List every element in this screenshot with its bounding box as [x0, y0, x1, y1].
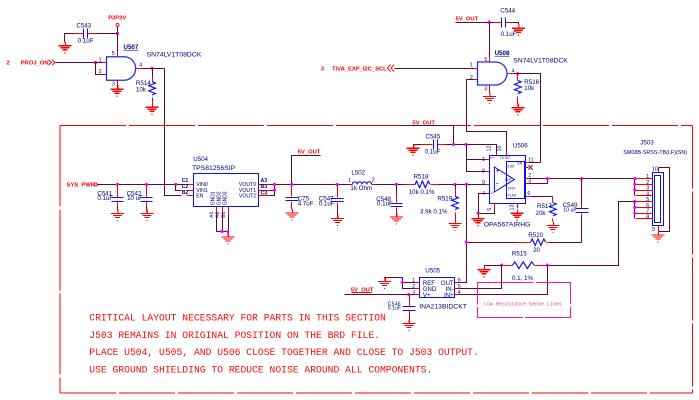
ground (C545)	[407, 144, 420, 155]
svg-text:U506: U506	[513, 143, 528, 150]
svg-text:B3: B3	[261, 184, 268, 190]
svg-text:J503: J503	[640, 140, 654, 147]
svg-text:4: 4	[482, 191, 485, 197]
ground (C548)	[390, 213, 403, 224]
wire R520 right to C549 leg	[550, 242, 582, 244]
junction PROJ_ON split	[94, 61, 97, 64]
junction pin 3 join	[546, 177, 549, 180]
svg-text:GND3: GND3	[222, 191, 228, 205]
svg-text:PLACE U504, U505, AND U506 CLO: PLACE U504, U505, AND U506 CLOSE TOGETHE…	[89, 347, 479, 358]
wire junction down to U507 pin 5	[117, 34, 119, 52]
svg-text:TPS81256SIP: TPS81256SIP	[192, 165, 236, 172]
svg-text:3: 3	[112, 81, 115, 87]
wire C543 right to junction	[96, 33, 118, 35]
junction VIN1 tee	[174, 183, 177, 186]
svg-text:C3: C3	[261, 191, 268, 197]
junction C548	[395, 183, 398, 186]
svg-text:10k: 10k	[136, 86, 147, 93]
junction U507 output	[151, 67, 154, 70]
junction P3P3V/C543	[116, 32, 119, 35]
node 5V_OUT (net label, top right)	[456, 16, 479, 22]
capacitor C547 0.1uF	[319, 185, 344, 216]
capacitor C548 0.1uF	[376, 185, 402, 214]
wire VIN1 loop	[176, 185, 182, 191]
node 5V_OUT (net label near U505)	[351, 288, 374, 294]
svg-text:2: 2	[470, 75, 473, 81]
junction J503 pin 7	[633, 212, 636, 215]
ground (C544)	[512, 24, 525, 35]
resistor R518 10k 0.1%	[407, 173, 439, 196]
svg-text:VOUT2: VOUT2	[239, 194, 256, 200]
svg-text:CRITICAL LAYOUT NECESSARY FOR: CRITICAL LAYOUT NECESSARY FOR PARTS IN T…	[89, 313, 386, 324]
resistor R516 10k	[514, 74, 539, 105]
op-amp U506 OPA567AIRHG	[482, 143, 534, 211]
wire C544 right to ground	[514, 23, 519, 25]
svg-text:6: 6	[527, 191, 530, 197]
junction R520 / feedback	[465, 241, 468, 244]
capacitor C541 0.1uF	[97, 185, 123, 211]
wire 5V_OUT to U505 V+	[345, 294, 415, 296]
node 5V_OUT (net label near U504)	[298, 150, 321, 156]
svg-text:TIVA_EXP_I2C_SCL: TIVA_EXP_I2C_SCL	[332, 67, 387, 73]
junction GND2	[221, 230, 224, 233]
svg-text:OPA567AIRHG: OPA567AIRHG	[484, 222, 531, 229]
ground (U506 pin 13)	[511, 209, 524, 220]
svg-text:10k: 10k	[524, 85, 535, 92]
svg-text:2: 2	[7, 60, 10, 66]
junction C547	[335, 183, 338, 186]
junction GND3	[226, 230, 229, 233]
svg-text:SYS_PWR: SYS_PWR	[67, 182, 96, 188]
svg-text:3: 3	[412, 290, 415, 296]
junction J503 pin 1	[633, 177, 636, 180]
svg-text:ILIM: ILIM	[508, 165, 515, 169]
wire drop to U506 pin 1 and pin 8	[467, 145, 486, 172]
svg-text:C543: C543	[76, 22, 91, 29]
svg-text:1497: 1497	[508, 187, 516, 191]
svg-text:13: 13	[510, 205, 516, 211]
wire junction to pin 1	[96, 62, 103, 64]
junction 5V_OUT / C75	[290, 183, 293, 186]
svg-text:B1: B1	[220, 211, 226, 218]
svg-text:8: 8	[646, 214, 649, 220]
svg-text:0.1uF: 0.1uF	[78, 38, 94, 45]
wire U505 OUT up to R520 junction	[460, 282, 467, 284]
critical layout note text	[89, 313, 479, 376]
wire U506 output pins 2/3	[530, 179, 635, 184]
svg-text:V-: V-	[491, 191, 494, 195]
svg-text:SN74LV1T08DCK: SN74LV1T08DCK	[513, 58, 568, 65]
svg-text:10: 10	[497, 146, 503, 152]
svg-text:2: 2	[412, 284, 415, 290]
wire TIVA_EXP_I2C_SCL to U508 pin 1	[395, 68, 474, 70]
svg-text:5V_OUT: 5V_OUT	[298, 150, 321, 156]
ground (R517)	[547, 222, 560, 233]
svg-text:R515: R515	[512, 250, 527, 257]
svg-text:IN+: IN+	[444, 293, 454, 299]
svg-text:3: 3	[321, 66, 325, 72]
junction C542	[145, 183, 148, 186]
svg-text:20: 20	[533, 247, 540, 254]
svg-text:4: 4	[458, 290, 461, 296]
svg-text:IN-: IN-	[446, 287, 454, 293]
svg-text:B2: B2	[182, 190, 189, 196]
svg-text:EN: EN	[196, 194, 203, 200]
wire R515 right down to U505 IN+	[460, 266, 548, 295]
capacitor C544	[495, 7, 517, 38]
svg-text:P3P3V: P3P3V	[108, 16, 126, 22]
svg-text:C544: C544	[500, 7, 515, 14]
svg-text:20k: 20k	[536, 210, 547, 217]
svg-text:10: 10	[652, 167, 658, 173]
ground (C75)	[286, 209, 299, 220]
capacitor C545 0.1uF	[422, 133, 447, 155]
svg-text:R520: R520	[528, 232, 543, 239]
svg-text:V+: V+	[490, 156, 494, 160]
svg-text:FLAG: FLAG	[508, 194, 517, 198]
wire EN vertical down to U504 EN	[165, 69, 182, 196]
wire C545 left to ground	[414, 145, 422, 146]
capacitor C542 10 uF	[127, 185, 153, 211]
wire U506 pins 4/5 to ground	[479, 194, 495, 214]
junction C545 net / 5V_OUT	[452, 143, 455, 146]
wire U508 output right and down to U506 pin 11	[514, 74, 541, 163]
wire 5V_OUT stub	[292, 156, 321, 185]
annotation box Low Resistance Sense Lines	[478, 283, 571, 318]
wire U504 GND pins to ground	[217, 215, 229, 235]
wire R520 left to feedback vertical	[467, 242, 517, 244]
wire U507 output to EN vertical	[143, 68, 165, 70]
terminal circle SYS_PWR	[94, 183, 97, 186]
svg-text:0.1uF: 0.1uF	[97, 195, 113, 202]
svg-text:U508: U508	[495, 50, 510, 57]
terminal circle P3P3V	[116, 23, 119, 26]
svg-text:1k Ohm: 1k Ohm	[350, 185, 372, 192]
wire 5V_OUT to C544	[456, 22, 495, 24]
svg-text:5: 5	[484, 57, 487, 63]
svg-text:GND: GND	[423, 287, 437, 293]
svg-text:5: 5	[112, 51, 115, 57]
svg-text:5: 5	[458, 284, 461, 290]
wire VOUT1/VOUT2 join	[270, 185, 275, 196]
svg-text:1: 1	[348, 178, 351, 184]
svg-text:U507: U507	[124, 44, 139, 51]
ground (U506 pins 4/5)	[478, 214, 480, 216]
junction C544 / U508 pin 5	[487, 21, 490, 24]
wire feedback vertical rail to U505 OUT	[460, 185, 467, 283]
svg-text:0.1uF: 0.1uF	[388, 305, 401, 311]
AND gate U507 SN74LV1T08DCK	[99, 44, 202, 87]
wire C545 net to U506 pin 12	[447, 145, 497, 152]
wire R515 left down to U505 IN-	[460, 266, 502, 289]
svg-text:5: 5	[487, 208, 493, 211]
pin stubs	[486, 160, 490, 194]
svg-text:10k 0.1%: 10k 0.1%	[409, 189, 435, 196]
junction U508 output	[516, 72, 519, 75]
junction pin1/pin8 drop	[464, 143, 467, 146]
junction R515 right	[546, 264, 549, 267]
off-page ref 2 PROJ_ON	[7, 60, 56, 67]
main critical-layout boundary rectangle	[60, 125, 692, 393]
svg-text:EN: EN	[518, 162, 523, 166]
ground (U505 REF/GND)	[378, 278, 391, 289]
wire U505 REF/GND to ground	[385, 278, 415, 289]
ground (U507 pin 3)	[111, 85, 124, 96]
inductor L502 1k Ohm	[348, 169, 375, 192]
wire J503 pins 9/10 shield loop	[659, 168, 670, 232]
junction C541	[116, 183, 119, 186]
svg-text:OUT: OUT	[505, 178, 512, 182]
svg-text:2: 2	[372, 177, 375, 183]
svg-text:0.1, 1%: 0.1, 1%	[512, 275, 533, 282]
wire VOUT0 rail to L502	[270, 184, 351, 186]
ground (R515 sense)	[478, 266, 491, 277]
svg-text:R519: R519	[437, 196, 452, 203]
svg-text:3.9k 0.1%: 3.9k 0.1%	[420, 209, 448, 216]
svg-text:Low Resistance Sense Lines: Low Resistance Sense Lines	[484, 302, 562, 308]
wire junction to pin 2	[96, 63, 103, 75]
svg-text:4: 4	[139, 62, 142, 68]
junction J503 pin 5	[633, 200, 636, 203]
ground (C541)	[111, 209, 124, 220]
svg-text:10 uF: 10 uF	[563, 208, 576, 214]
junction VOUT1	[273, 188, 276, 191]
resistor R515 0.1, 1%	[502, 250, 548, 282]
svg-text:9: 9	[482, 180, 485, 186]
svg-text:A2: A2	[214, 211, 220, 218]
svg-text:5V_OUT: 5V_OUT	[456, 16, 479, 22]
junction C549 branch	[580, 177, 583, 180]
svg-text:4.7uF: 4.7uF	[298, 200, 314, 207]
wire J503 bus pins 1-4	[634, 179, 636, 196]
capacitor C543	[75, 22, 96, 44]
wire C543 left to ground	[65, 34, 75, 43]
svg-text:R518: R518	[414, 173, 429, 180]
wire PROJ_ON to U507 pin 1	[56, 62, 96, 64]
node P3P3V (net label)	[108, 16, 126, 22]
wire sense line from J503 pin 5	[548, 202, 635, 266]
AND gate U508 SN74LV1T08DCK	[470, 50, 568, 94]
svg-text:1: 1	[470, 63, 473, 69]
wire P3P3V circle to junction	[117, 27, 119, 34]
ground (R519)	[449, 220, 462, 231]
no-connect X on U506	[528, 165, 532, 169]
wire SYS_PWR rail to U504 VIN0	[98, 184, 187, 186]
svg-text:C545: C545	[426, 133, 441, 140]
capacitor C75 4.7uF	[286, 185, 314, 210]
svg-text:2: 2	[99, 69, 102, 75]
ground (R514)	[146, 103, 159, 114]
ground (C542)	[140, 209, 153, 220]
svg-text:12: 12	[486, 146, 492, 152]
svg-text:U504: U504	[193, 156, 208, 163]
wire U506 pin 11	[530, 162, 541, 164]
svg-text:A1: A1	[209, 211, 215, 218]
wire J503 bus pins 5-8	[634, 202, 636, 219]
svg-text:SN74LV1T08DCK: SN74LV1T08DCK	[147, 52, 202, 59]
wire R515 left to ground	[485, 266, 502, 267]
junction J503 pin 6	[633, 206, 636, 209]
svg-text:SM08B-SRSS-TB(LF)(SN): SM08B-SRSS-TB(LF)(SN)	[623, 150, 687, 156]
wire 5V_OUT drop to C545 net	[453, 126, 455, 145]
resistor R517 20k	[532, 197, 557, 222]
junction feedback vertical on rail	[465, 183, 468, 186]
junction R519	[453, 183, 456, 186]
svg-text:0.1uF: 0.1uF	[501, 31, 517, 38]
svg-text:J503 REMAINS IN ORIGINAL POSIT: J503 REMAINS IN ORIGINAL POSITION ON THE…	[89, 330, 380, 341]
junction J503 pin 3	[633, 189, 636, 192]
junction J503 pin 2	[633, 183, 636, 186]
svg-text:TSTAT: TSTAT	[500, 156, 510, 160]
ground (R516)	[511, 104, 524, 115]
svg-text:REF: REF	[423, 281, 435, 287]
svg-text:V+: V+	[423, 293, 431, 299]
ground (C547)	[331, 215, 344, 226]
resistor R519 3.9k 0.1%	[420, 185, 458, 221]
wire L502 to R518	[375, 184, 407, 186]
junction pins 4/5 ground	[476, 211, 479, 214]
connector J503 SM08B-SRSS-TB(LF)(SN)	[623, 140, 687, 233]
capacitor C549 10 uF (series in vertical)	[563, 179, 589, 243]
off-page ref 3 TIVA_EXP_I2C_SCL	[321, 65, 395, 73]
junction VOUT join rail	[273, 183, 276, 186]
svg-text:INA213BIDCKT: INA213BIDCKT	[419, 303, 467, 310]
capacitor C546 0.1uF	[388, 295, 416, 321]
svg-text:U505: U505	[425, 267, 440, 274]
ground (C546)	[402, 319, 415, 330]
svg-text:L502: L502	[351, 169, 365, 176]
node 5V_OUT (net label at boundary)	[412, 121, 435, 127]
ground (J503)	[658, 231, 660, 233]
svg-text:8: 8	[482, 168, 485, 174]
junction R515 left	[500, 264, 503, 267]
svg-text:3: 3	[484, 87, 487, 93]
junction C546	[407, 293, 410, 296]
wire junction down to U508 pin 5	[489, 23, 491, 57]
svg-text:OUT: OUT	[441, 281, 454, 287]
current sense amp U505 INA213BIDCKT	[412, 267, 467, 310]
svg-text:USE GROUND SHIELDING TO REDUCE: USE GROUND SHIELDING TO REDUCE NOISE ARO…	[89, 365, 432, 376]
svg-text:PROJ_ON: PROJ_ON	[21, 61, 49, 67]
ground (U504)	[221, 233, 234, 244]
junction REF/GND	[401, 281, 404, 284]
resistor R520 20	[517, 232, 550, 254]
node SYS_PWR (net label)	[67, 182, 96, 188]
wire U508 pin 2 down to U506 pin 10	[467, 80, 507, 152]
ground (C543)	[58, 42, 71, 53]
ground (U508 pin 3)	[483, 92, 496, 103]
regulator U504 TPS81256SIP	[182, 156, 270, 218]
svg-text:1: 1	[482, 157, 485, 163]
svg-text:1: 1	[99, 58, 102, 64]
resistor R514 10k	[136, 69, 156, 105]
wire R518 to U506 pin 9	[439, 184, 486, 186]
svg-text:0.1uF: 0.1uF	[425, 149, 441, 156]
wire 5V_OUT segment over boundary	[401, 125, 454, 127]
svg-text:9: 9	[652, 227, 655, 233]
